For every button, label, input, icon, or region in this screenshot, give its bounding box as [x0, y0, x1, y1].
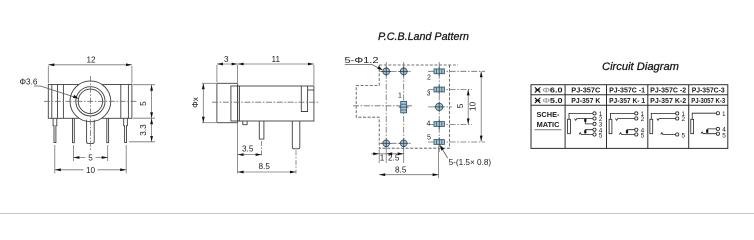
- side pin stub: [243, 121, 247, 125]
- terminal circles s1: [593, 112, 596, 115]
- svg-text:PJ-3057 K-3: PJ-3057 K-3: [691, 98, 725, 105]
- terminal labels s4: [722, 111, 726, 140]
- pad circle right C: [436, 103, 443, 110]
- vertical centerline col C: [438, 62, 440, 152]
- pin 3 front: [87, 120, 95, 144]
- side pin middle: [259, 121, 264, 139]
- svg-text:5-Φ1.2: 5-Φ1.2: [345, 56, 380, 65]
- pad slot 4: [434, 122, 444, 127]
- side bushing: [217, 83, 238, 122]
- wire pin3 s1: [585, 119, 593, 124]
- side body: [238, 86, 314, 121]
- dim 10 front bottom: [55, 145, 126, 173]
- front circle outer: [70, 81, 111, 122]
- pin 2 front: [73, 118, 75, 142]
- svg-text:10: 10: [86, 166, 96, 175]
- svg-text:MATIC: MATIC: [537, 120, 561, 129]
- dim 3 side: [217, 64, 314, 85]
- dim 2.5 land: [386, 153, 404, 155]
- dim 12 front: [48, 65, 132, 84]
- wire pin5 s4: [701, 132, 716, 134]
- wire pin4 s1: [585, 130, 593, 134]
- svg-text:Φ6.0: Φ6.0: [543, 87, 563, 94]
- wire pin1 s4: [692, 113, 716, 119]
- wire pin1 s2: [611, 113, 635, 119]
- svg-text:5: 5: [139, 101, 148, 106]
- side pin right: [292, 121, 300, 149]
- svg-text:Circuit Diagram: Circuit Diagram: [602, 61, 679, 73]
- pad labels: [398, 74, 431, 141]
- pin 4 front: [107, 118, 109, 142]
- svg-text:3.3: 3.3: [139, 124, 148, 136]
- terminal labels s3: [682, 111, 686, 139]
- svg-text:8.5: 8.5: [395, 165, 407, 174]
- svg-text:5: 5: [641, 132, 645, 139]
- pad slot 2: [434, 69, 444, 74]
- pad circle top A: [383, 68, 390, 75]
- svg-text:11: 11: [272, 55, 281, 64]
- terminal labels s2: [641, 111, 645, 139]
- front circle ring: [76, 87, 105, 116]
- dim 5 front right: [133, 85, 155, 119]
- contact dot 2-3 s1: [584, 119, 586, 122]
- dim 5 land: [467, 89, 469, 124]
- wire pin1 s1: [569, 113, 593, 119]
- svg-text:3: 3: [224, 55, 229, 64]
- svg-text:PJ-357C: PJ-357C: [571, 87, 600, 94]
- dim 11 side: [238, 63, 314, 65]
- svg-text:1: 1: [380, 153, 385, 162]
- front body internal vertical lines: [51, 85, 53, 119]
- dim 10 land: [480, 71, 482, 141]
- dim 8.5 side: [238, 151, 296, 174]
- ext centerline slot5: [428, 141, 485, 143]
- front centerline vertical: [89, 76, 91, 151]
- svg-text:5: 5: [456, 103, 465, 108]
- svg-text:3: 3: [427, 90, 431, 97]
- svg-text:5: 5: [599, 132, 603, 139]
- svg-text:PJ-357 K- 1: PJ-357 K- 1: [609, 98, 645, 105]
- front body outline: [48, 85, 132, 119]
- schematic cell label: [537, 110, 561, 129]
- pad slot 3: [434, 87, 444, 92]
- svg-text:5: 5: [722, 133, 726, 140]
- jack sleeve 4: [691, 119, 694, 133]
- wire pin5 s3: [661, 133, 676, 135]
- wire pin4 s2: [627, 130, 635, 134]
- pin 1 front: [53, 118, 57, 142]
- dim 3.3 front right: [129, 118, 155, 142]
- vertical centerline col B: [403, 62, 405, 150]
- ext centerline slot4: [428, 123, 472, 125]
- wire pin2 s2: [615, 119, 634, 121]
- pad slot 5: [434, 140, 444, 145]
- terminal circles s3: [676, 112, 679, 115]
- vertical centerline col A: [385, 62, 387, 150]
- svg-text:3.5: 3.5: [242, 145, 254, 154]
- ext centerline slot3: [428, 88, 472, 90]
- land outline dashed: [356, 65, 458, 148]
- schematic 1 (PJ-357C): [568, 113, 593, 134]
- svg-text:4: 4: [427, 121, 431, 128]
- horizontal centerline row bottom: [380, 142, 412, 144]
- svg-text:Φx: Φx: [191, 97, 200, 108]
- dim 8.5 land: [379, 147, 438, 179]
- page separator line: [0, 213, 754, 215]
- pad circle bottom B: [400, 140, 407, 147]
- dim 5 front bottom: [73, 145, 107, 161]
- svg-text:5: 5: [427, 134, 431, 141]
- header row 1: [543, 87, 726, 105]
- schematic 2 (PJ-357C-1): [609, 113, 635, 134]
- wire pin4 s4: [707, 129, 716, 133]
- dim phi-x side: [202, 83, 216, 122]
- label 5-(1.5x0.8) with leader: [441, 146, 448, 158]
- contact dot 4-5 s4: [706, 130, 708, 133]
- svg-text:PJ-357 K: PJ-357 K: [571, 98, 600, 105]
- front circle hole: [78, 89, 102, 113]
- pad circle top B: [400, 68, 407, 75]
- wire pin5 s2: [619, 133, 634, 135]
- svg-text:PJ-357C -1: PJ-357C -1: [609, 87, 645, 94]
- wire pin1 s3: [651, 113, 675, 119]
- side centerline: [212, 101, 319, 103]
- svg-text:2: 2: [682, 116, 686, 123]
- contact dot 4-5 s1: [584, 130, 586, 133]
- ext centerline slot2: [428, 70, 485, 72]
- svg-text:5-(1.5× 0.8): 5-(1.5× 0.8): [449, 158, 492, 167]
- dim 3.5 side: [238, 122, 262, 174]
- pin 5 front: [124, 118, 128, 142]
- horizontal centerline row top: [380, 70, 412, 72]
- side front block: [231, 86, 240, 121]
- svg-text:2.5: 2.5: [388, 153, 400, 162]
- svg-text:2: 2: [427, 74, 431, 81]
- contact dot 4-5 s2: [626, 130, 628, 133]
- horizontal centerline circle C: [428, 106, 452, 108]
- schematic 4 (PJ-357C-3): [691, 113, 716, 134]
- svg-text:8.5: 8.5: [259, 162, 271, 171]
- jack sleeve 2: [609, 119, 612, 133]
- svg-text:2: 2: [641, 116, 645, 123]
- terminal circles s2: [635, 112, 638, 115]
- svg-text:PJ-357C -2: PJ-357C -2: [650, 87, 686, 94]
- svg-text:5: 5: [682, 132, 686, 139]
- land centerlines: [353, 62, 485, 152]
- table grid: [531, 85, 728, 149]
- front centerline horizontal: [44, 100, 137, 102]
- svg-text:1: 1: [398, 93, 402, 100]
- terminal labels s1: [599, 111, 603, 139]
- reference-mark symbol row2: [535, 98, 540, 103]
- dim phi3.6 leader: [34, 86, 77, 98]
- pad circle bottom A: [383, 140, 390, 147]
- terminal circles s4: [716, 112, 719, 115]
- svg-text:PJ-357C-3: PJ-357C-3: [692, 87, 725, 94]
- slot end lines: [401, 69, 442, 144]
- reference-mark symbol row1: [535, 88, 540, 93]
- side step line: [308, 89, 314, 91]
- wire pin2 s1: [575, 119, 593, 121]
- dim 1 land: [371, 148, 404, 164]
- pad crosshairs: [381, 67, 444, 149]
- svg-text:10: 10: [468, 101, 477, 111]
- jack sleeve 3: [650, 119, 653, 133]
- svg-text:Φ3.6: Φ3.6: [20, 78, 38, 87]
- svg-text:P.C.B.Land Pattern: P.C.B.Land Pattern: [378, 31, 469, 43]
- svg-text:Φ5.0: Φ5.0: [543, 98, 563, 105]
- svg-text:SCHE-: SCHE-: [537, 110, 561, 119]
- svg-text:12: 12: [87, 56, 97, 65]
- svg-text:PJ-357 K-2: PJ-357 K-2: [650, 98, 686, 105]
- wire pin5 s1: [579, 133, 593, 135]
- svg-text:1: 1: [722, 111, 726, 118]
- jack sleeve 1: [568, 119, 571, 133]
- horizontal centerline slot1 row / bushing: [353, 105, 412, 107]
- side slot: [301, 86, 307, 112]
- svg-text:5: 5: [88, 154, 93, 163]
- wire pin2 s3: [657, 119, 676, 121]
- pad slot 1 vertical: [401, 101, 407, 112]
- schematic 3 (PJ-357C-2): [650, 113, 676, 134]
